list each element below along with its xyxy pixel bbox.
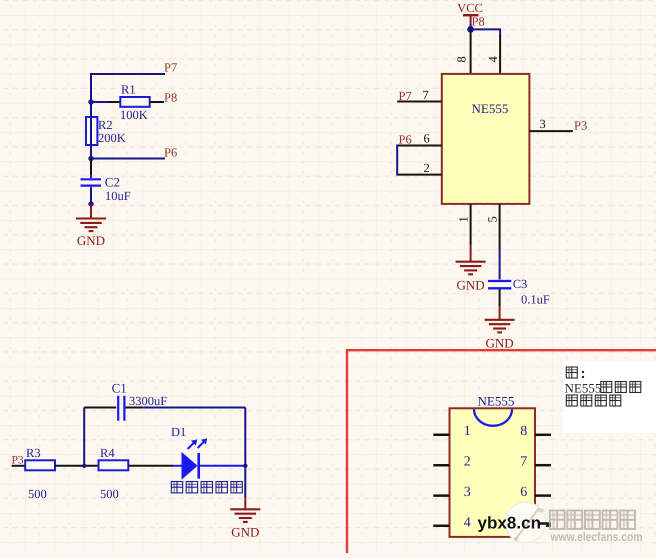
note text 注： — [566, 367, 584, 378]
svg-text:R3: R3 — [26, 446, 41, 460]
note box red border — [347, 350, 656, 553]
note text NE555针脚排 — [565, 381, 641, 396]
watermark ybx8.cn — [478, 514, 542, 533]
wire P6 horizontal — [91, 158, 165, 160]
DIP pin number 4 — [464, 516, 471, 531]
label R1 — [121, 83, 136, 97]
label GND (C3) — [486, 336, 514, 351]
DIP left pin stub 3 — [433, 494, 449, 497]
node P3 label (input) — [12, 455, 24, 467]
svg-text:VCC: VCC — [457, 1, 483, 15]
wire C1 tap vertical — [83, 408, 85, 467]
wire pin 3 of U1 — [529, 130, 572, 132]
svg-text:D1: D1 — [171, 425, 186, 439]
svg-text:0.1uF: 0.1uF — [521, 293, 550, 307]
pin number 2 — [424, 161, 430, 175]
DIP pin number 3 — [464, 485, 471, 500]
svg-text:P8: P8 — [472, 15, 485, 29]
label C3 — [513, 277, 528, 291]
value 3300uF — [129, 394, 167, 408]
value 200K — [98, 131, 126, 145]
svg-text:2: 2 — [464, 455, 471, 470]
DIP pin number 6 — [520, 485, 527, 500]
pin number 1 (rotated) — [457, 216, 471, 222]
DIP pin number 1 — [464, 424, 471, 439]
svg-text:C2: C2 — [105, 175, 120, 190]
wire P7 horizontal — [91, 73, 165, 75]
wire VCC stem to junction — [470, 24, 472, 29]
wire right rail vertical — [244, 408, 246, 498]
value 500 (R3) — [28, 487, 47, 501]
wire R4 to D1 — [128, 465, 182, 467]
pin number 4 (rotated) — [486, 56, 500, 63]
wire P3 to R3 — [12, 465, 26, 467]
svg-text:4: 4 — [464, 516, 471, 531]
wire C2 top pin — [90, 159, 92, 179]
svg-text:P7: P7 — [164, 61, 177, 75]
svg-text:2: 2 — [424, 161, 430, 175]
pin number 3 — [540, 117, 546, 131]
DIP left pin stub 4 — [433, 524, 449, 527]
wire R1 left pin — [91, 101, 121, 103]
wire pin 2 of U1 — [397, 174, 442, 176]
DIP notch arc — [474, 409, 512, 426]
label GND (pin 1) — [457, 278, 485, 293]
junction at R1/R2 — [88, 99, 93, 104]
DIP left pin stub 2 — [433, 464, 449, 467]
value 0.1uF — [521, 293, 550, 307]
svg-text:P3: P3 — [12, 455, 24, 467]
svg-text:1: 1 — [457, 216, 471, 222]
pin number 5 (rotated) — [486, 216, 500, 222]
DIP pin number 2 — [464, 455, 471, 470]
wire pin 6 of U1 — [397, 145, 442, 147]
note text 列示意图 — [566, 395, 621, 406]
svg-text:3300uF: 3300uF — [129, 394, 167, 408]
node P6 label (at U1) — [399, 133, 412, 147]
svg-text:5: 5 — [486, 216, 500, 222]
svg-text:GND: GND — [77, 233, 105, 248]
DIP pin number 5 — [520, 516, 527, 531]
svg-text:www.elecfans.com: www.elecfans.com — [550, 530, 643, 544]
svg-text:8: 8 — [520, 424, 527, 439]
watermark 电子发烧友 — [550, 511, 635, 530]
DIP right pin stub 6 — [535, 494, 551, 497]
node P3 label (at U1) — [574, 118, 587, 132]
junction above GND — [88, 201, 93, 206]
DIP pin number 7 — [520, 455, 527, 470]
label R3 — [26, 446, 41, 460]
wire pin 8 of U1 — [470, 29, 472, 74]
wire junction to pin4 corner — [470, 28, 501, 36]
svg-text:500: 500 — [28, 487, 47, 501]
label C1 — [112, 380, 127, 395]
wire pin5 to C3 — [499, 248, 501, 280]
svg-text:NE555: NE555 — [472, 101, 509, 116]
node P7 label — [164, 61, 177, 75]
resistor R4 — [99, 460, 129, 470]
svg-text:6: 6 — [520, 485, 527, 500]
capacitor C3 — [488, 281, 511, 288]
DIP right pin stub 7 — [535, 464, 551, 467]
wire connecting pin6 to pin2 — [396, 145, 398, 176]
label R4 — [100, 446, 115, 460]
label GND (divider) — [77, 233, 105, 248]
svg-text:P8: P8 — [164, 91, 177, 105]
junction at P6 — [88, 156, 93, 161]
svg-text:P6: P6 — [164, 146, 177, 160]
wire R3 to R4 — [55, 465, 99, 467]
resistor R3 — [25, 460, 55, 470]
svg-text:GND: GND — [231, 525, 259, 540]
svg-text:10uF: 10uF — [105, 189, 131, 203]
node P6 label — [164, 146, 177, 160]
svg-text:C1: C1 — [112, 380, 127, 395]
DIP right pin stub 5 (over watermark) — [539, 522, 551, 525]
DIP right pin stub 5 — [535, 524, 551, 527]
svg-text:R4: R4 — [100, 446, 115, 460]
wire C1 left pin — [84, 407, 116, 409]
svg-text:6: 6 — [424, 131, 430, 145]
junction at D1 output — [243, 464, 247, 468]
label R2 — [98, 118, 113, 132]
wire R1 right pin — [150, 101, 164, 103]
watermark sprout circle — [505, 502, 547, 544]
svg-text:R1: R1 — [121, 83, 136, 97]
note white background — [563, 361, 656, 433]
label C2 — [105, 175, 120, 190]
DIP package body — [450, 408, 536, 537]
svg-text:1: 1 — [464, 424, 471, 439]
wire D1 to right rail — [200, 465, 245, 467]
resistor R1 — [120, 97, 149, 107]
junction VCC/P8 — [467, 26, 474, 33]
junction at C1 tap — [82, 464, 86, 468]
wire pin 1 of U1 — [470, 204, 472, 245]
svg-text:R2: R2 — [98, 118, 113, 132]
watermark www.elecfans.com — [550, 530, 643, 544]
pin number 8 (rotated) — [455, 56, 469, 62]
svg-text:100K: 100K — [120, 108, 148, 122]
svg-text:3: 3 — [540, 117, 546, 131]
svg-text:500: 500 — [100, 487, 119, 501]
label GND (LED) — [231, 525, 259, 540]
pin number 6 — [424, 131, 430, 145]
wire pin 7 of U1 — [397, 101, 442, 103]
svg-text:200K: 200K — [98, 131, 126, 145]
node P8 label (at VCC) — [472, 15, 485, 29]
wire vertical from P7 through R2 to P6 — [90, 73, 92, 159]
capacitor C1 — [118, 396, 124, 421]
svg-text:8: 8 — [455, 56, 469, 62]
svg-text:4: 4 — [486, 56, 500, 63]
svg-text:7: 7 — [423, 88, 429, 102]
value 500 (R4) — [100, 487, 119, 501]
svg-text:ybx8.cn: ybx8.cn — [478, 514, 542, 533]
wire C2 bottom pin — [90, 187, 92, 204]
ground GND (C3) — [485, 306, 515, 332]
svg-text:7: 7 — [520, 455, 527, 470]
DIP pin number 8 — [520, 424, 527, 439]
wire C1 right to rail — [126, 407, 246, 409]
wire pin 4 of U1 — [499, 35, 501, 74]
wire pin 5 of U1 — [499, 204, 501, 249]
label NE555 (pinout) — [478, 394, 515, 409]
ground GND (pin 1) — [456, 245, 486, 275]
svg-text:NE555: NE555 — [478, 394, 515, 409]
value 100K — [120, 108, 148, 122]
svg-text:P7: P7 — [399, 89, 412, 103]
op-amp U1 NE555 body — [442, 74, 530, 204]
svg-text:C3: C3 — [513, 277, 528, 291]
LED arrows of D1 — [188, 438, 208, 449]
power VCC bar symbol — [463, 15, 479, 28]
svg-text:P6: P6 — [399, 133, 412, 147]
wire C3 to GND — [499, 289, 501, 306]
value 10uF — [105, 189, 131, 203]
node P8 label — [164, 91, 177, 105]
svg-text:3: 3 — [464, 485, 471, 500]
LED D1 (diode triangle + cathode bar) — [182, 453, 199, 479]
svg-text:GND: GND — [486, 336, 514, 351]
label D1 — [171, 425, 186, 439]
power VCC label — [457, 1, 483, 15]
node P7 label (at U1) — [399, 89, 412, 103]
pin number 7 — [423, 88, 429, 102]
svg-text:NE555: NE555 — [565, 381, 602, 396]
label 发光二极管 — [171, 482, 242, 493]
DIP left pin stub 1 — [433, 434, 449, 437]
resistor R2 — [86, 117, 97, 145]
capacitor C2 — [81, 179, 102, 185]
svg-text:P3: P3 — [574, 118, 587, 132]
ground GND (divider) — [76, 204, 106, 231]
DIP right pin stub 8 — [535, 434, 551, 437]
label NE555 — [472, 101, 509, 116]
ground GND (LED) — [230, 497, 260, 522]
svg-text:GND: GND — [457, 278, 485, 293]
